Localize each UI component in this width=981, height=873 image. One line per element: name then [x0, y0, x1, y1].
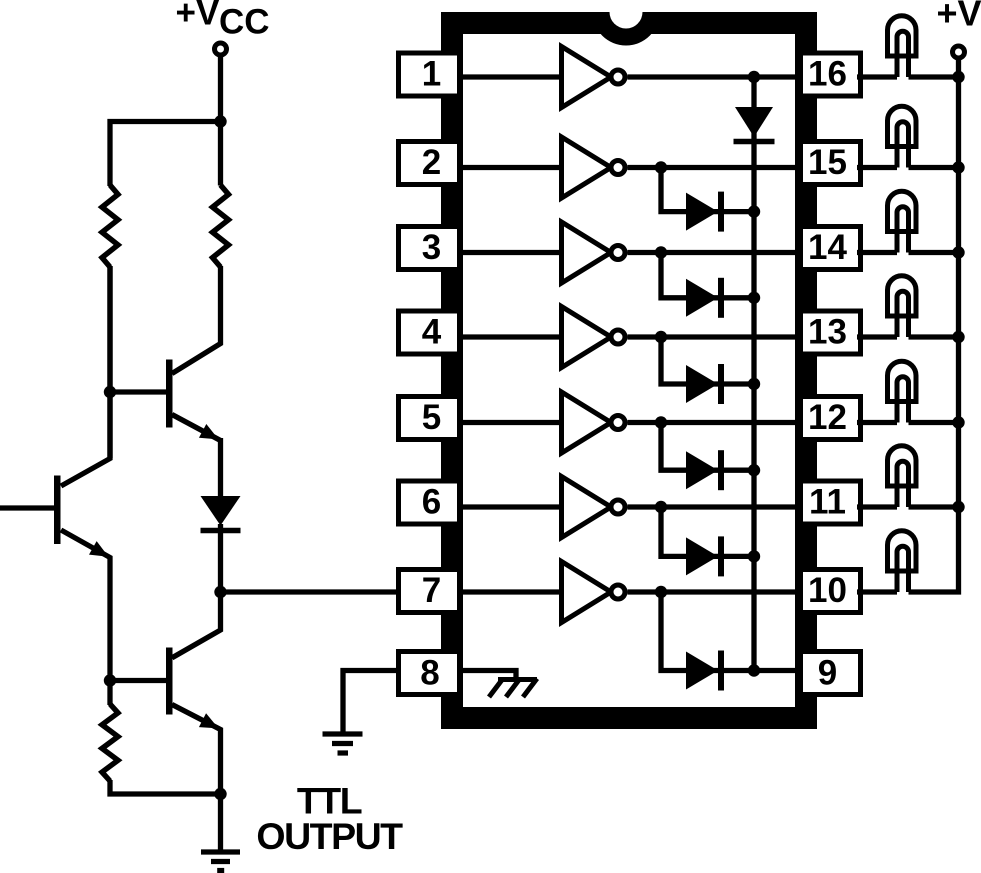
pin 2 box: [399, 142, 460, 185]
svg-text:16: 16: [808, 55, 847, 94]
wire: [458, 74, 562, 79]
diode D3: [686, 278, 721, 318]
inverter U1e: [562, 392, 626, 453]
diode D5: [686, 450, 721, 490]
wire: [343, 671, 399, 732]
wire: [857, 74, 897, 79]
node +V rail: [952, 331, 964, 343]
LED10 leads: [897, 546, 909, 592]
node rail D4: [748, 378, 760, 390]
wire: [628, 589, 803, 594]
node Q1 base: [104, 386, 116, 398]
wire: [909, 250, 959, 255]
wire: [628, 334, 803, 339]
wire: [458, 589, 562, 594]
wire: [956, 59, 961, 76]
wire: [458, 420, 562, 425]
+V label: [937, 0, 981, 34]
diode D4: [686, 364, 721, 404]
node Q3 base: [104, 674, 116, 686]
node driver7 output: [655, 586, 667, 598]
wire: [110, 122, 221, 187]
pin 16 box: [801, 53, 861, 96]
diode D6: [686, 536, 721, 576]
LED11 leads: [897, 461, 909, 507]
wire: [221, 589, 399, 594]
inverter U1d: [562, 307, 626, 368]
svg-text:+V: +V: [937, 0, 981, 34]
inverter U1g: [562, 562, 626, 623]
node +V rail: [952, 161, 964, 173]
LED12 body: [888, 361, 917, 401]
LED14 body: [888, 191, 917, 231]
wire: [661, 507, 754, 556]
wire: [909, 334, 959, 339]
transistor Q3: [110, 648, 221, 795]
diode D16: [734, 107, 775, 142]
svg-text:13: 13: [808, 313, 847, 352]
svg-text:10: 10: [808, 571, 847, 610]
svg-text:1: 1: [422, 55, 441, 94]
wire: [458, 504, 562, 509]
chassis ground pin8: [489, 679, 537, 698]
wire: [218, 438, 223, 498]
resistor R3: [102, 704, 118, 781]
inverter U1b: [562, 137, 626, 198]
wire: [661, 592, 754, 671]
svg-text:OUTPUT: OUTPUT: [256, 815, 403, 857]
node driver2 output: [655, 161, 667, 173]
LED13 body: [888, 276, 917, 316]
op-amp U1 package outline: [441, 12, 817, 729]
wire: [661, 253, 754, 298]
wire: [857, 420, 897, 425]
node rail D6: [748, 550, 760, 562]
wire: [909, 165, 959, 170]
LED13 leads: [897, 291, 909, 337]
LED15 leads: [897, 122, 909, 168]
svg-text:6: 6: [422, 483, 441, 522]
node driver4 output: [655, 331, 667, 343]
inverter U1c: [562, 222, 626, 283]
pin 8 box: [399, 652, 460, 695]
node +V rail: [952, 501, 964, 513]
+V terminal: [953, 46, 965, 58]
svg-text:12: 12: [808, 398, 847, 437]
wire: [458, 334, 562, 339]
wire: [661, 168, 754, 212]
node rail top: [748, 71, 760, 83]
pin 5 box: [399, 397, 460, 440]
wire: [110, 780, 221, 794]
wire: [460, 671, 516, 680]
pin 10 box: [801, 570, 861, 613]
wire: [110, 389, 167, 394]
pin 1 box: [399, 53, 460, 96]
node driver5 output: [655, 416, 667, 428]
wire: [218, 57, 223, 122]
pin 6 box: [399, 481, 460, 524]
wire: [751, 77, 756, 671]
svg-text:15: 15: [808, 143, 847, 182]
inverter U1a: [562, 47, 626, 108]
pin 15 box: [801, 142, 861, 185]
pin 3 box: [399, 227, 460, 270]
node driver6 output: [655, 501, 667, 513]
diode D7: [686, 651, 721, 691]
svg-text:3: 3: [422, 228, 441, 267]
inverter U1f: [562, 477, 626, 538]
diode D2: [686, 192, 721, 232]
LED12 leads: [897, 377, 909, 423]
wire: [909, 420, 959, 425]
wire +V rail: [909, 77, 959, 592]
wire: [909, 504, 959, 509]
svg-text:11: 11: [809, 483, 846, 522]
node output emitter junction: [214, 788, 226, 800]
ground: [201, 852, 240, 871]
LED14 leads: [897, 207, 909, 253]
pin 9 box: [801, 652, 861, 695]
wire: [628, 504, 803, 509]
wire: [661, 337, 754, 384]
wire: [458, 250, 562, 255]
node TTL output: [214, 586, 226, 598]
diode D1: [201, 496, 241, 531]
wire: [857, 250, 897, 255]
wire: [857, 165, 897, 170]
package notch: [593, 12, 660, 45]
ground: [323, 734, 363, 753]
wire: [218, 794, 223, 852]
svg-text:2: 2: [422, 143, 441, 182]
node +V rail: [952, 246, 964, 258]
node rail D2: [748, 205, 760, 217]
svg-text:7: 7: [422, 571, 441, 610]
wire: [754, 668, 802, 673]
wire: [458, 165, 562, 170]
node driver3 output: [655, 246, 667, 258]
node VCC junction: [214, 115, 226, 127]
node +V junction: [952, 71, 964, 83]
LED11 body: [888, 446, 917, 486]
pin 14 box: [801, 227, 861, 270]
wire: [107, 266, 112, 458]
svg-text:CC: CC: [219, 3, 270, 42]
node rail D7: [748, 664, 760, 676]
pin 12 box: [801, 397, 861, 440]
wire: [857, 589, 897, 594]
transistor Q2: [0, 266, 110, 705]
svg-text:14: 14: [808, 228, 847, 267]
LED16 body: [888, 16, 917, 56]
wire: [628, 250, 803, 255]
svg-text:5: 5: [422, 398, 441, 437]
label OUTPUT: [256, 815, 403, 857]
pin 11 box: [801, 481, 861, 524]
wire: [909, 74, 959, 79]
+VCC label: [176, 0, 270, 42]
pin 13 box: [801, 311, 861, 354]
svg-text:9: 9: [818, 654, 837, 693]
wire: [218, 119, 223, 186]
transistor Q1: [166, 266, 221, 441]
wire: [857, 334, 897, 339]
wire: [857, 504, 897, 509]
svg-text:8: 8: [420, 654, 439, 693]
LED10 body: [888, 531, 917, 571]
wire: [218, 524, 223, 592]
pin 7 box: [399, 570, 460, 613]
resistor R2: [213, 185, 229, 267]
pin 4 box: [399, 311, 460, 354]
node rail D3: [748, 292, 760, 304]
wire: [172, 592, 221, 658]
node +V rail: [952, 416, 964, 428]
LED15 body: [888, 106, 917, 146]
LED16 leads: [897, 31, 909, 77]
wire: [628, 74, 803, 79]
+VCC terminal: [215, 43, 227, 55]
resistor R1: [102, 185, 118, 267]
wire: [628, 420, 803, 425]
node rail D5: [748, 464, 760, 476]
wire: [628, 165, 803, 170]
wire: [661, 423, 754, 471]
svg-text:4: 4: [422, 313, 442, 352]
label TTL: [297, 780, 362, 822]
svg-text:+V: +V: [176, 0, 220, 33]
